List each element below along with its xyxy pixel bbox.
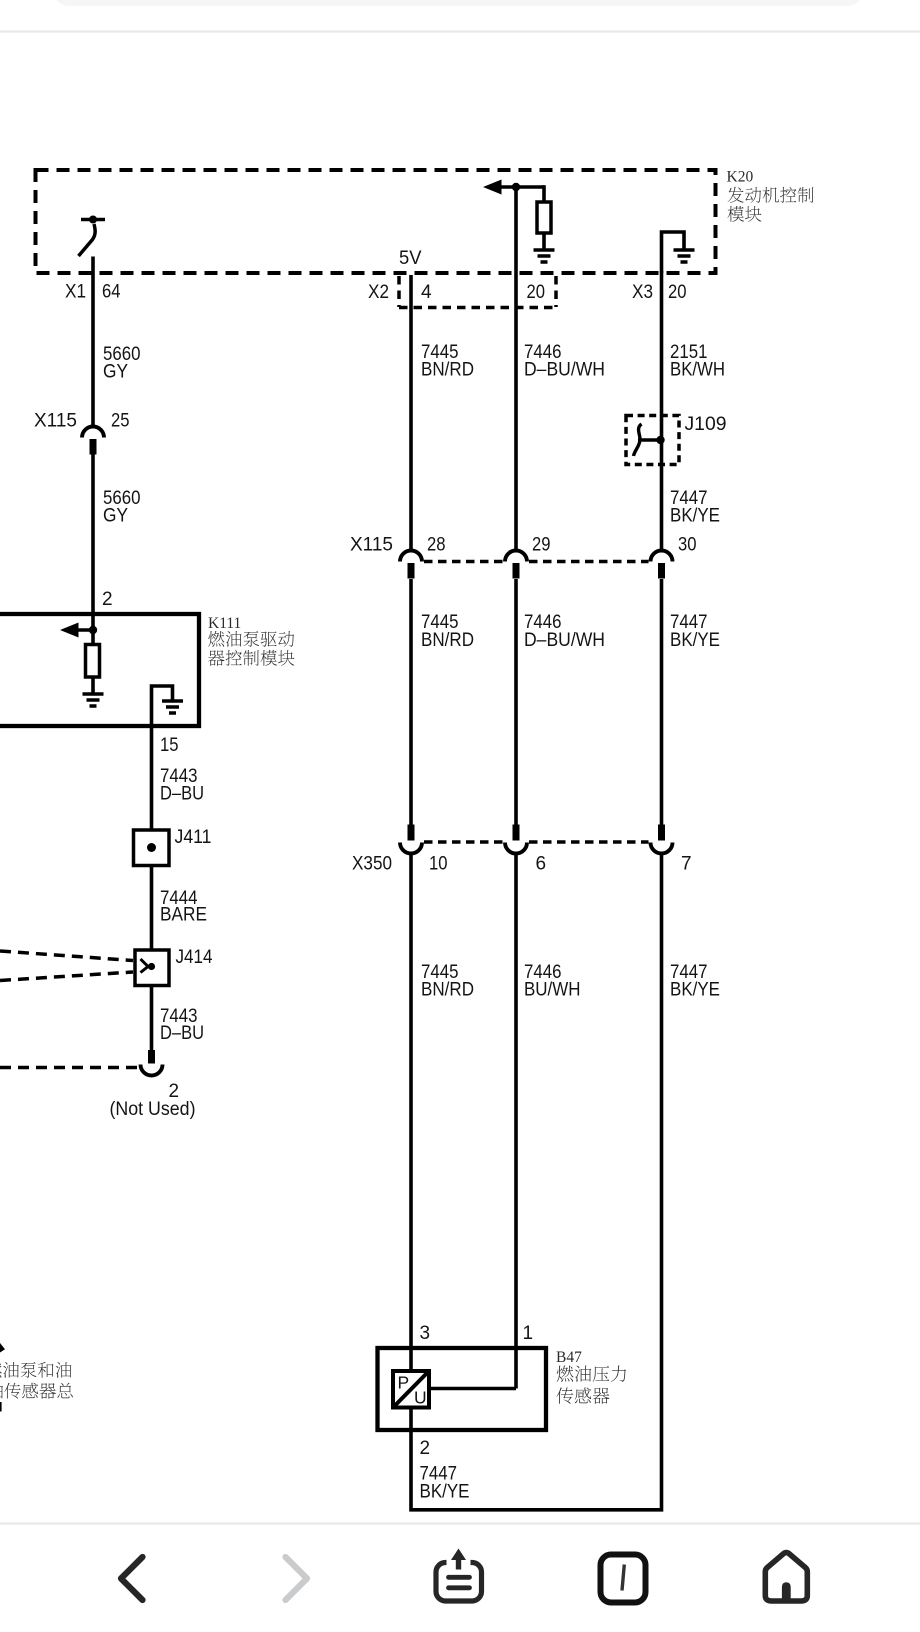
svg-text:J109: J109 bbox=[685, 414, 727, 435]
wire 7445 BN/RD segment X2-4 to X115-28 bbox=[409, 275, 413, 551]
svg-text:D–BU: D–BU bbox=[160, 784, 204, 805]
svg-text:BK/YE: BK/YE bbox=[420, 1482, 470, 1503]
label B47 chinese line2 传感器 bbox=[557, 1387, 610, 1404]
wire 7443 D-BU segment J414 to connector bbox=[150, 986, 154, 1051]
status/search pill top bar remnant bbox=[55, 0, 861, 6]
connector X2 dashed outline bbox=[399, 276, 556, 308]
label chinese (clipped) line2 位传感器总 bbox=[0, 1383, 73, 1399]
inline connector X350 pin 6 bbox=[505, 825, 527, 854]
module label K20 chinese line1 发动机控制 bbox=[728, 187, 814, 203]
svg-text:28: 28 bbox=[427, 535, 446, 556]
toolbar home icon bbox=[765, 1553, 807, 1602]
switch/driver output symbol inside K20 (pin X1-64) bbox=[79, 216, 106, 257]
svg-text:B47: B47 bbox=[556, 1349, 582, 1366]
splice J411 dot bbox=[147, 843, 156, 852]
svg-text:D–BU: D–BU bbox=[160, 1023, 204, 1044]
svg-text:X115: X115 bbox=[34, 411, 77, 432]
module K111 box bbox=[0, 614, 199, 726]
module label K111 chinese line2 器控制模块 bbox=[208, 650, 294, 666]
ground symbol (K111 internal) bbox=[83, 694, 104, 706]
ground symbol (K20 internal, pull-up return) bbox=[534, 250, 555, 262]
sensor internal link to pin 1 bbox=[429, 1387, 516, 1391]
label chinese (clipped) line3 成 sliver bbox=[0, 1402, 2, 1412]
svg-text:U: U bbox=[414, 1388, 427, 1408]
svg-text:BU/WH: BU/WH bbox=[524, 980, 581, 1001]
module label K20 chinese line2 模块 bbox=[728, 206, 762, 222]
wire corner to resistor bbox=[542, 185, 546, 202]
K111 internal ground wiring for pin 15 bbox=[152, 686, 173, 726]
svg-text:1: 1 bbox=[523, 1323, 534, 1344]
clipped arrow fragment of off-screen fuel pump assembly bbox=[0, 1343, 5, 1353]
wire 7446 D-BU/WH segment K20 to X115-29 bbox=[514, 187, 518, 551]
module label K111 chinese line1 燃油泵驱动 bbox=[208, 631, 294, 647]
svg-text:7: 7 bbox=[681, 854, 692, 875]
bottom toolbar divider bbox=[0, 1522, 920, 1524]
svg-text:X3: X3 bbox=[632, 282, 653, 303]
svg-text:10: 10 bbox=[429, 854, 448, 875]
resistor inside K111 bbox=[86, 645, 100, 678]
svg-text:30: 30 bbox=[678, 535, 697, 556]
inline connector X115 pin 28 bbox=[400, 551, 422, 579]
label chinese (clipped) line1 燃油泵和油 bbox=[0, 1362, 71, 1378]
svg-text:5V: 5V bbox=[399, 248, 422, 269]
inline connector X115 pin 25 bbox=[82, 427, 104, 455]
wire 2151 BK/WH segment X3-20 to J109 bbox=[660, 271, 664, 551]
sensor B47 box bbox=[378, 1348, 547, 1430]
unmated female terminal (not used) bbox=[141, 1065, 163, 1076]
wire end male terminal bbox=[148, 1050, 155, 1064]
toolbar forward chevron bbox=[286, 1557, 308, 1600]
wire resistor to ground (K111) bbox=[91, 677, 95, 694]
junction dot on sensor signal line bbox=[512, 183, 520, 191]
wire 7445 BN/RD segment X350-10 to B47-3 bbox=[409, 854, 413, 1372]
svg-text:J414: J414 bbox=[176, 947, 213, 968]
internal 5V pull-up: left arrow bbox=[483, 180, 544, 195]
K20 internal ground wiring for pin X3-20 bbox=[662, 232, 685, 273]
splice J109 symbol curve bbox=[634, 424, 642, 456]
wire resistor to ground bbox=[542, 233, 546, 250]
K111 internal left arrow bbox=[60, 623, 93, 638]
svg-text:BK/YE: BK/YE bbox=[670, 630, 720, 651]
toolbar share icon bbox=[436, 1549, 482, 1602]
splice J109 branch line bbox=[638, 438, 661, 442]
splice J414 dot bbox=[148, 963, 155, 970]
svg-text:GY: GY bbox=[103, 362, 128, 383]
label B47 chinese line1 燃油压力 bbox=[557, 1366, 626, 1382]
svg-text:64: 64 bbox=[102, 282, 121, 303]
svg-text:BK/YE: BK/YE bbox=[670, 980, 720, 1001]
splice J109 dot bbox=[656, 436, 664, 444]
svg-text:2: 2 bbox=[102, 589, 113, 610]
K111 internal: wire from pin 2 to junction bbox=[91, 616, 95, 645]
svg-text:D–BU/WH: D–BU/WH bbox=[524, 360, 605, 381]
svg-text:GY: GY bbox=[103, 506, 128, 527]
svg-text:BN/RD: BN/RD bbox=[421, 630, 474, 651]
splice J109 dashed box bbox=[626, 416, 679, 465]
svg-text:BN/RD: BN/RD bbox=[421, 360, 474, 381]
svg-text:6: 6 bbox=[536, 854, 547, 875]
wire 7445 BN/RD segment X115-28 to X350-10 bbox=[409, 579, 413, 825]
svg-text:20: 20 bbox=[527, 282, 546, 303]
svg-text:29: 29 bbox=[532, 535, 551, 556]
toolbar tabs icon bbox=[601, 1555, 646, 1603]
svg-text:X2: X2 bbox=[368, 282, 389, 303]
top divider bbox=[0, 30, 920, 32]
inline connector X115 pin 29 bbox=[505, 551, 527, 579]
resistor (pull-up) inside K20 bbox=[537, 202, 551, 233]
svg-text:4: 4 bbox=[421, 282, 432, 303]
inline connector X350 pin 7 bbox=[651, 825, 673, 854]
svg-text:J411: J411 bbox=[175, 827, 212, 848]
K111 junction dot bbox=[89, 626, 97, 634]
svg-text:X1: X1 bbox=[65, 282, 86, 303]
splice J414 chevron mark bbox=[141, 959, 149, 973]
inline connector X350 pin 10 bbox=[400, 825, 422, 854]
wire 5660 GY segment X115-25 to K111 pin 2 bbox=[91, 455, 95, 617]
svg-text:BARE: BARE bbox=[160, 905, 207, 926]
wire 7443 D-BU segment K111:15 to J411 bbox=[150, 726, 154, 830]
wire 7444 BARE segment J411 to J414 bbox=[150, 866, 154, 951]
wire 7447 BK/YE segment X115-30 to X350-7 bbox=[660, 579, 664, 825]
svg-text:(Not Used): (Not Used) bbox=[110, 1099, 196, 1120]
splice J411 box bbox=[134, 830, 170, 866]
splice J414 box bbox=[135, 950, 169, 986]
toolbar back chevron bbox=[121, 1557, 143, 1600]
svg-text:BN/RD: BN/RD bbox=[421, 980, 474, 1001]
svg-text:X350: X350 bbox=[352, 854, 392, 875]
sensor element P/U square bbox=[393, 1371, 429, 1408]
svg-text:BK/YE: BK/YE bbox=[670, 506, 720, 527]
sensor element diagonal bbox=[395, 1373, 428, 1407]
svg-text:K111: K111 bbox=[208, 615, 241, 632]
module K20 dashed box bbox=[36, 170, 716, 273]
svg-text:20: 20 bbox=[668, 282, 687, 303]
wire 7446 BU/WH segment X350-6 to B47-1 bbox=[514, 854, 518, 1389]
svg-text:P: P bbox=[398, 1373, 410, 1393]
ground symbol (K20 internal, sensor low reference) bbox=[674, 250, 695, 262]
svg-text:K20: K20 bbox=[727, 169, 754, 186]
ground symbol (K111 internal, pin 15 return) bbox=[162, 701, 183, 713]
svg-text:X115: X115 bbox=[350, 535, 393, 556]
wire 7447 BK/YE: B47-2 down, across bottom, up to X350-7 bbox=[411, 854, 662, 1510]
svg-text:D–BU/WH: D–BU/WH bbox=[524, 630, 605, 651]
svg-text:2: 2 bbox=[420, 1438, 431, 1459]
wire 5660 GY segment K20:X1-64 to X115-25 bbox=[91, 257, 95, 427]
svg-text:BK/WH: BK/WH bbox=[670, 360, 725, 381]
inline connector X115 pin 30 bbox=[651, 551, 673, 579]
connector X115 dashed tie lines bbox=[424, 560, 503, 564]
connector X350 dashed tie lines bbox=[424, 840, 503, 844]
dashed lead to not-used terminal bbox=[0, 1066, 138, 1070]
svg-text:25: 25 bbox=[111, 411, 130, 432]
wire 7446 D-BU/WH segment X115-29 to X350-6 bbox=[514, 579, 518, 825]
dashed lead into J414 (upper) bbox=[0, 951, 133, 961]
dashed lead into J414 (lower) bbox=[0, 972, 133, 981]
svg-text:3: 3 bbox=[420, 1323, 431, 1344]
svg-text:15: 15 bbox=[160, 735, 179, 756]
